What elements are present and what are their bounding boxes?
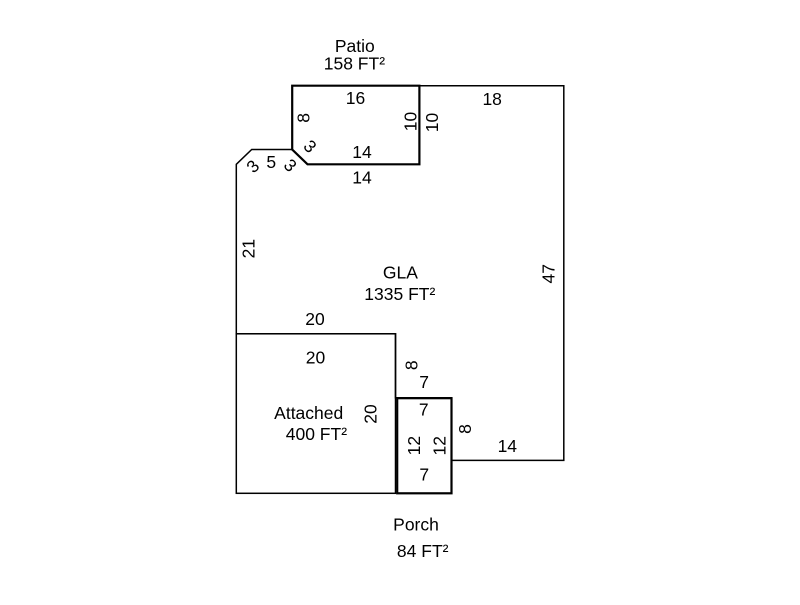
svg-text:20: 20 bbox=[306, 348, 326, 368]
svg-text:14: 14 bbox=[498, 436, 518, 456]
svg-text:21: 21 bbox=[239, 239, 259, 258]
svg-text:10: 10 bbox=[400, 112, 420, 132]
svg-text:GLA: GLA bbox=[383, 263, 418, 283]
attached garage outline bbox=[236, 334, 395, 494]
svg-text:8: 8 bbox=[401, 360, 421, 370]
svg-text:16: 16 bbox=[346, 88, 365, 108]
svg-text:84 FT²: 84 FT² bbox=[397, 541, 449, 561]
svg-text:20: 20 bbox=[361, 404, 381, 424]
GLA outline bbox=[236, 86, 564, 461]
patio outline bbox=[292, 86, 419, 165]
svg-text:5: 5 bbox=[266, 152, 276, 172]
svg-text:14: 14 bbox=[352, 167, 372, 187]
svg-text:20: 20 bbox=[305, 309, 325, 329]
svg-text:400 FT²: 400 FT² bbox=[286, 424, 347, 444]
svg-text:12: 12 bbox=[404, 436, 424, 455]
svg-text:14: 14 bbox=[352, 142, 372, 162]
svg-text:8: 8 bbox=[294, 113, 314, 123]
svg-text:7: 7 bbox=[419, 372, 429, 392]
porch outline bbox=[397, 398, 451, 493]
svg-text:7: 7 bbox=[419, 464, 429, 484]
svg-text:8: 8 bbox=[455, 424, 475, 434]
svg-text:18: 18 bbox=[482, 89, 501, 109]
svg-text:158 FT²: 158 FT² bbox=[324, 54, 385, 74]
svg-text:7: 7 bbox=[419, 400, 429, 420]
svg-text:10: 10 bbox=[422, 113, 442, 133]
svg-text:1335 FT²: 1335 FT² bbox=[364, 284, 435, 304]
svg-text:Attached: Attached bbox=[274, 403, 343, 423]
svg-text:Porch: Porch bbox=[393, 514, 439, 534]
svg-text:12: 12 bbox=[429, 436, 449, 455]
svg-text:47: 47 bbox=[539, 264, 559, 283]
